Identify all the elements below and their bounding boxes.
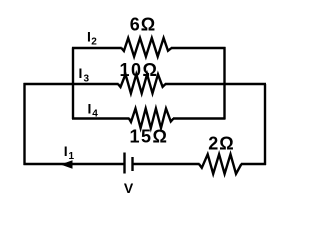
battery V short plate xyxy=(131,157,133,171)
wire third branch left xyxy=(72,117,130,119)
svg-text:2: 2 xyxy=(91,36,97,47)
wire middle branch right xyxy=(165,83,266,85)
svg-text:2Ω: 2Ω xyxy=(208,134,234,154)
wire bottom right segment xyxy=(241,163,266,165)
wire bottom middle segment xyxy=(133,163,200,165)
wire left outer vertical xyxy=(23,83,25,165)
battery V long plate xyxy=(123,153,125,174)
svg-text:3: 3 xyxy=(84,73,90,84)
wire bottom left segment xyxy=(24,163,125,165)
resistor 15ohm xyxy=(129,109,174,129)
svg-text:I: I xyxy=(88,101,92,117)
svg-text:I: I xyxy=(79,65,83,81)
resistor 10ohm xyxy=(118,74,166,93)
wire right outer vertical xyxy=(264,84,266,165)
svg-text:1: 1 xyxy=(69,151,75,162)
svg-text:V: V xyxy=(124,180,134,196)
resistor 2ohm xyxy=(199,154,241,174)
wire top branch left xyxy=(72,47,122,49)
current arrow I1 xyxy=(61,160,73,169)
wire top branch right xyxy=(171,47,226,49)
svg-text:I: I xyxy=(87,29,91,45)
wire inner left bus vertical xyxy=(72,48,74,120)
wire middle branch left xyxy=(24,83,119,85)
wire right inner vertical xyxy=(223,47,225,119)
resistor 6ohm xyxy=(121,38,171,57)
svg-text:10Ω: 10Ω xyxy=(120,60,159,80)
wire third branch right xyxy=(173,117,226,119)
svg-text:I: I xyxy=(64,143,68,159)
svg-text:6Ω: 6Ω xyxy=(130,15,156,35)
svg-text:15Ω: 15Ω xyxy=(130,126,169,146)
svg-text:4: 4 xyxy=(92,109,98,120)
